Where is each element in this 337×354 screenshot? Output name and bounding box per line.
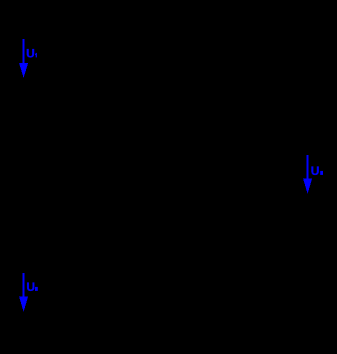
wire input 2 (bottom left horizontal) [5, 272, 120, 274]
svg-text:U: U [26, 47, 35, 61]
ground [188, 244, 202, 260]
label Ua [311, 164, 323, 178]
wire input 1 (top left horizontal) [5, 38, 120, 40]
resistor R4 (to ground) [188, 200, 202, 244]
wire output (to right terminal) [250, 154, 330, 156]
voltage arrow Ua (output, right) [303, 155, 312, 194]
resistor R2 [120, 266, 164, 280]
resistor R3 (feedback) [205, 95, 249, 109]
wire ground rail to lower output terminal [329, 197, 331, 315]
voltage arrow U2 (input 2, bottom left) [19, 273, 28, 312]
resistor R1 [120, 32, 164, 46]
ground rail wire (bottom) [5, 314, 330, 316]
op-amp U1A [205, 135, 250, 175]
svg-text:U: U [26, 280, 35, 294]
label U2 [26, 280, 37, 294]
voltage arrow U1 (input 1, top left) [19, 39, 28, 78]
svg-text:U: U [311, 164, 320, 178]
wire R1 to inverting input [164, 39, 205, 145]
label U1 [26, 47, 37, 61]
wire R2 to non-inverting input [164, 165, 205, 273]
wire feedback to output node [200, 102, 265, 155]
